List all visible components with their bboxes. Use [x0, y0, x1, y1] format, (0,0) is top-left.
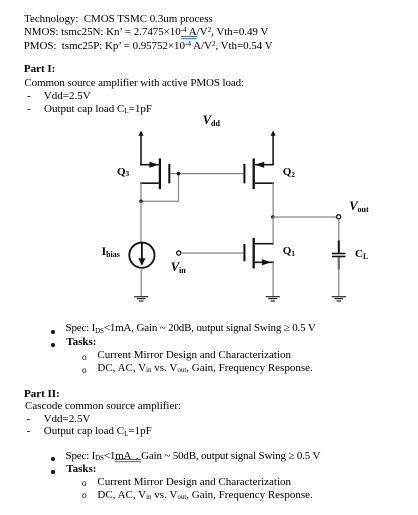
label Vin [171, 261, 186, 276]
node dot drain-Ibias junction [139, 200, 143, 204]
wire Vout node to terminal [273, 216, 337, 218]
list item D3 [27, 413, 31, 425]
sub item E3 [82, 480, 87, 489]
wire Vin to Q1 gate [181, 252, 243, 254]
ground under CL [332, 297, 346, 301]
current source Ibias [129, 243, 154, 268]
text line A1 [24, 13, 213, 25]
text line B2 [24, 77, 244, 89]
terminal Vout open circle [337, 215, 341, 219]
label Q1 [283, 245, 295, 258]
text line D2 [25, 400, 181, 412]
terminal Vin open circle [177, 251, 181, 255]
label CL [355, 248, 368, 261]
bullet E2 tasks [51, 470, 55, 474]
wire Q2 drain to Vout node [272, 183, 274, 217]
wire Vout node down to Q1 drain [272, 217, 274, 244]
list item B3 [27, 90, 31, 102]
heading Part I [24, 63, 55, 75]
bullet E1 spec [51, 457, 55, 461]
label Ibias [102, 246, 120, 260]
node dot gate junction [177, 172, 181, 176]
transistor Q1 (NMOS) [244, 238, 274, 269]
transistor Q2 (PMOS) [244, 158, 274, 189]
ground under Q1 [266, 297, 280, 301]
node dot Vout [271, 215, 275, 219]
wire junction to current source [140, 201, 142, 242]
wire Q3 gate to Q2 gate [170, 173, 243, 175]
wire Vout terminal down to capacitor [338, 219, 340, 253]
sub item E4 [82, 492, 87, 501]
text line A3 [24, 40, 273, 53]
bullet C2 tasks [51, 343, 55, 347]
label Vout [349, 200, 368, 215]
text line A2 [24, 26, 268, 39]
power Vdd arrow left [138, 131, 143, 166]
heading Part II [24, 388, 60, 400]
label Q3 [117, 166, 129, 179]
sub item C3 [82, 354, 87, 363]
wire diode connection vertical [178, 174, 180, 202]
wire capacitor to ground [338, 257, 340, 296]
label Vdd [203, 114, 220, 129]
wire Q1 source to ground [272, 262, 274, 296]
label Q2 [283, 166, 295, 179]
ground under Ibias [134, 297, 148, 301]
list item D4 [27, 425, 31, 437]
wire diode connection horizontal [141, 200, 179, 202]
list item B4 [27, 103, 31, 115]
capacitor CL [332, 241, 346, 270]
power Vdd arrow right [271, 131, 276, 166]
sub item C4 [82, 367, 87, 376]
transistor Q3 (PMOS, diode-connected) [140, 158, 169, 189]
wire Ibias to ground [140, 268, 142, 296]
wire Q3 drain down [140, 183, 142, 201]
bullet C1 spec [51, 330, 55, 334]
